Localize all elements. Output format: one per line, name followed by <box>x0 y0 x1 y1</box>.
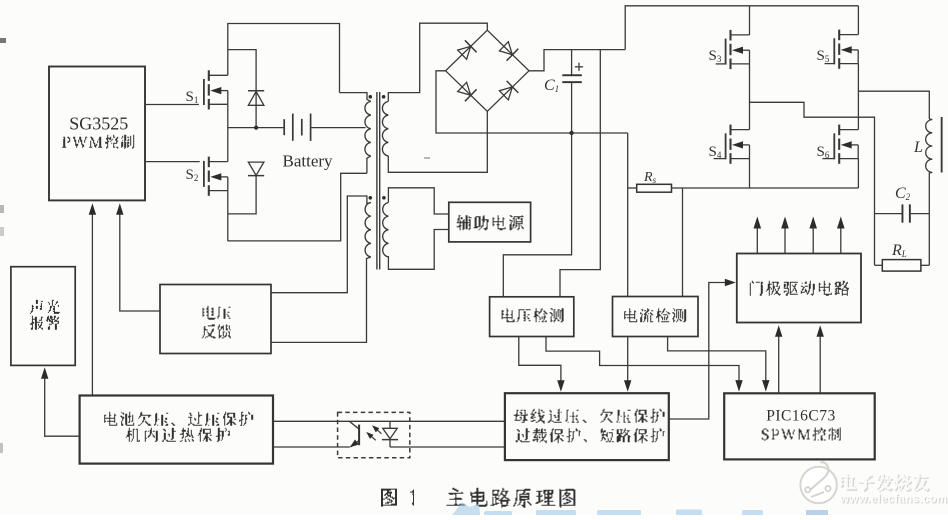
node T2 secondary polarity dot <box>382 196 386 200</box>
wire Rs left lead <box>628 187 637 189</box>
transformer T2 secondary winding <box>383 203 389 257</box>
wire output right leg <box>928 214 930 266</box>
wire bottom rail to T1 primary bottom <box>228 173 367 241</box>
resistor RL (load) <box>875 264 883 266</box>
wire protection to optocoupler bottom-left <box>273 446 350 448</box>
wire S4 source to bottom rail <box>749 159 751 188</box>
wire S6 source to bottom rail <box>857 159 859 188</box>
node T1 primary polarity dot <box>369 95 373 99</box>
wire optocoupler to protection bottom-right <box>390 446 505 448</box>
block sound-light alarm <box>11 267 75 366</box>
optocoupler U3 dashed box <box>338 412 410 457</box>
wire T1 secondary bottom to bridge <box>388 111 487 172</box>
wire protection to SG3525 (arrow) <box>91 214 93 396</box>
diode bridge D4 (top-right edge) <box>499 42 512 55</box>
block U1 SG3525 PWM control <box>49 67 145 201</box>
node C1 negative rail junction <box>569 131 573 135</box>
diode D1 (across S1, pointing up) <box>248 92 264 106</box>
watermark blue marks <box>806 510 828 515</box>
wire S5 gate stub <box>825 63 835 65</box>
node battery center junction <box>254 126 258 130</box>
wire S5 drain to top rail <box>857 6 859 35</box>
wire S3 source to S4 drain (left midpoint) <box>749 64 751 130</box>
wire C1 minus down to voltage sense <box>503 133 571 297</box>
wire bridge positive output to plus bus <box>529 50 625 71</box>
block bus over/under-voltage overload short protection <box>505 393 669 460</box>
watermark elecfans text <box>841 475 930 492</box>
caption figure 1 main circuit schematic <box>381 489 414 507</box>
diode bridge rectifier diamond <box>446 30 529 111</box>
wire negative rail down to Rs and current sense <box>627 133 629 297</box>
wire mains-protection to gate drive (arrow) <box>669 283 729 420</box>
diode bridge D6 (bottom-right edge) <box>499 87 512 100</box>
wire voltage detection to PIC (arrow) <box>546 337 739 385</box>
wire current detection to PIC (arrow) <box>668 337 766 385</box>
watermark elecfans logo <box>800 467 836 503</box>
wire S4 gate stub <box>714 158 726 160</box>
wire SG3525 to S2 gate <box>145 161 200 163</box>
transformer T1 secondary winding <box>382 101 388 156</box>
block battery under/over-voltage and overheat protection <box>80 396 273 464</box>
diode bridge D5 (left-bottom edge) <box>458 82 471 95</box>
wire protection to optocoupler top line <box>273 420 505 422</box>
node T1 secondary polarity dot <box>382 95 386 99</box>
transformer T1 core <box>376 92 377 270</box>
svg-text:www.elecfans.com: www.elecfans.com <box>839 494 947 506</box>
wire S2 source to bottom rail <box>227 190 229 241</box>
label C1 plus sign <box>575 66 583 68</box>
transistor S6 MOSFET <box>838 125 840 136</box>
inductor L <box>926 119 933 214</box>
block auxiliary power supply <box>449 202 531 242</box>
wire S3 drain to top rail <box>749 6 751 35</box>
battery B1 <box>283 119 285 135</box>
wire D2 cathode to S2 source <box>228 176 256 214</box>
wire gate drive outputs (4 up arrows) <box>756 228 758 254</box>
wire SG3525 to S1 gate <box>145 104 199 106</box>
block current detection <box>613 297 699 337</box>
svg-text:Battery: Battery <box>283 152 334 171</box>
wire left midpoint step to output left <box>750 102 875 265</box>
wire voltage detection to protection (arrow) <box>519 337 561 386</box>
wire T1 primary top stub <box>340 93 371 102</box>
node T2 primary polarity dot <box>369 196 373 200</box>
svg-text:PIC16C73: PIC16C73 <box>766 408 835 425</box>
transformer T2 primary winding <box>365 203 371 257</box>
wire T2 secondary bottom to aux supply <box>388 230 448 270</box>
wire bridge negative output to negative rail <box>436 71 628 133</box>
svg-text:SG3525: SG3525 <box>69 114 128 134</box>
block voltage detection <box>490 297 574 337</box>
wire center node row (battery negative) <box>228 127 284 129</box>
inductor L core bar <box>941 117 943 173</box>
transistor S2 MOSFET <box>208 157 210 168</box>
capacitor C2 <box>875 213 903 215</box>
wire Rs right tap down to current sense <box>682 188 684 297</box>
svg-text:L: L <box>913 139 923 156</box>
wire right midpoint to filter inductor <box>858 91 929 119</box>
wire current detection to protection (arrow) <box>627 337 629 386</box>
diode bridge D3 (left-top edge) <box>458 46 471 59</box>
optocoupler phototransistor <box>358 425 360 446</box>
wire voltage feedback to SG3525 (arrow) <box>120 214 160 311</box>
wire T2 primary bottom to voltage feedback <box>271 257 371 343</box>
diode D2 (across S2, pointing down) <box>248 162 264 175</box>
wire S3 gate stub <box>716 63 726 65</box>
optocoupler LED <box>389 421 391 428</box>
wire PIC SPWM to gate drive (2 up arrows) <box>778 330 780 393</box>
optocoupler light arrows <box>368 434 376 441</box>
wire S6 gate stub <box>822 158 834 160</box>
wire T1 secondary top to bridge <box>388 23 487 101</box>
block U2 PIC16C73 SPWM control <box>724 393 875 459</box>
transistor S5 MOSFET <box>838 30 840 41</box>
wire Rs right to bottom rail <box>672 187 859 189</box>
diode D1 branch wire <box>228 50 256 128</box>
wire S1 drain to top rail <box>228 24 340 93</box>
resistor Rs <box>637 184 672 192</box>
wire T1 primary bottom stub <box>367 156 371 173</box>
block voltage feedback <box>160 285 271 354</box>
capacitor C1 (electrolytic) <box>571 50 573 75</box>
wire battery positive to T1 center tap <box>311 127 366 129</box>
block gate drive circuit <box>737 254 861 323</box>
wire T2 secondary top to aux supply <box>388 188 448 214</box>
transistor S4 MOSFET <box>729 125 731 136</box>
wire plus bus tap down to voltage sense <box>560 50 600 297</box>
wire plus bus to H-bridge top rail <box>625 6 858 50</box>
wire protection to alarm (arrow) <box>45 377 80 436</box>
wire T2 primary top to voltage feedback <box>271 196 371 293</box>
wire S1 source to center node <box>227 104 229 161</box>
transistor S1 MOSFET <box>208 70 210 81</box>
wire S5 source to S6 drain (right midpoint) <box>857 64 859 130</box>
transformer T1 primary winding <box>365 101 371 156</box>
transistor S3 MOSFET <box>729 30 731 41</box>
